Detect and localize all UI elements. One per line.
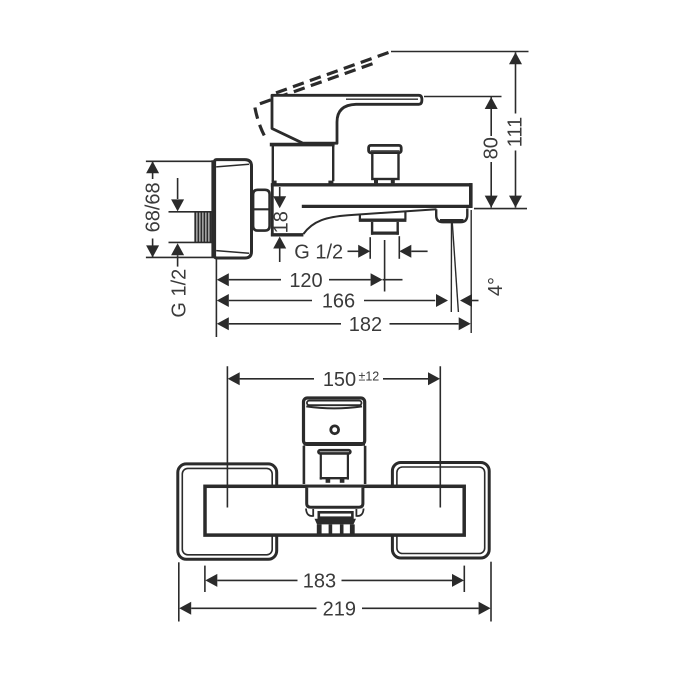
svg-text:G 1/2: G 1/2 — [294, 242, 343, 264]
svg-text:18: 18 — [270, 211, 292, 233]
svg-text:166: 166 — [322, 291, 355, 313]
svg-text:219: 219 — [323, 599, 356, 621]
svg-text:G 1/2: G 1/2 — [169, 269, 191, 318]
svg-text:4°: 4° — [485, 277, 507, 296]
svg-text:80: 80 — [480, 137, 502, 159]
svg-text:68/68: 68/68 — [143, 182, 165, 232]
svg-text:±12: ±12 — [359, 369, 380, 383]
svg-text:120: 120 — [289, 270, 322, 292]
svg-text:183: 183 — [303, 571, 336, 593]
svg-text:150: 150 — [323, 369, 356, 391]
svg-text:182: 182 — [349, 314, 382, 336]
svg-text:111: 111 — [505, 117, 527, 147]
